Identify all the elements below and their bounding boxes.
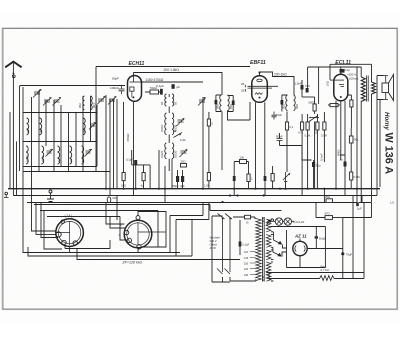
junction dots on buses: [105, 188, 358, 204]
svg-text:25Ω: 25Ω: [325, 195, 330, 199]
wire: rectifier under box: [287, 227, 326, 268]
antenna: [5, 62, 21, 78]
wire: drop verticals to bus: [106, 95, 134, 189]
trimmer capacitor CT9: [97, 96, 106, 105]
wire: tuner verticals: [23, 87, 97, 171]
resistor R15 50k: [349, 128, 359, 172]
wire: speaker return: [379, 100, 381, 188]
coil L1: [26, 118, 30, 135]
output transformer T5 secondary: [372, 64, 376, 202]
svg-text:0550: 0550: [41, 155, 45, 162]
capacitor C19 mains: [239, 220, 250, 255]
svg-text:70µF: 70µF: [346, 253, 353, 257]
IF transformer T3 coils: [215, 95, 233, 111]
svg-text:50k: 50k: [354, 138, 359, 142]
trimmer capacitor CT4: [89, 122, 97, 130]
svg-text:0,1µF: 0,1µF: [156, 84, 164, 88]
svg-text:6,3k: 6,3k: [180, 138, 186, 142]
coil L8: [69, 146, 73, 164]
svg-text:089: 089: [39, 128, 43, 133]
coil L7: [57, 146, 61, 164]
resistor R22: [348, 95, 353, 128]
svg-text:60kΩ: 60kΩ: [336, 150, 340, 156]
IF transformer T4 coils: [281, 95, 299, 111]
wire: can interlinks: [106, 196, 209, 257]
capacitor C5 50uF electrolytic: [173, 170, 180, 189]
svg-text:20pF: 20pF: [276, 113, 283, 117]
wire: can link bottom: [65, 240, 110, 249]
mains switch S1: [217, 214, 232, 275]
wire: ECH11 anode line to IF2: [133, 73, 222, 96]
svg-text:0,3M: 0,3M: [321, 134, 327, 138]
wire: big loop top left: [20, 86, 126, 88]
wire: secondary taps right: [271, 219, 274, 281]
wire: bus B2: [13, 195, 377, 197]
wire: antenna lead down to bus: [12, 78, 14, 196]
wire: IF2 bottom drop: [221, 112, 223, 171]
svg-text:1150·470kΩ: 1150·470kΩ: [146, 78, 164, 82]
wire: EBF anode line to IF3: [260, 72, 295, 95]
IF transformer T1 can: [56, 219, 84, 247]
svg-text:700: 700: [305, 84, 310, 88]
wire: secondary loop vertical: [376, 100, 378, 196]
trimmer capacitor CT5: [177, 118, 185, 126]
svg-text:Gleich: Gleich: [210, 243, 218, 247]
wire: mains entry: [212, 216, 230, 282]
tone switch S3: [309, 116, 319, 189]
wire: big loop left vertical: [19, 87, 21, 171]
label mains ratings: [210, 236, 221, 251]
coil L3: [26, 146, 30, 164]
svg-text:10Ω: 10Ω: [326, 81, 330, 86]
capacitor C20 70uF: [341, 218, 352, 279]
wire: oscillator column links: [168, 94, 170, 171]
svg-text:( 7A ): ( 7A ): [65, 214, 73, 218]
tube V3 ECL11: [330, 73, 348, 101]
wire: bus stubs: [110, 189, 357, 203]
trimmer capacitor CT11: [198, 97, 206, 106]
svg-text:50µF: 50µF: [173, 184, 180, 188]
wire: screen bus drop: [95, 67, 97, 172]
resistor R17 25 ohm heater: [325, 195, 358, 203]
wire: ECL anode top wiring: [322, 67, 361, 74]
capacitor C6 4uF electrolytic: [180, 170, 185, 189]
coil L9: [81, 146, 85, 164]
svg-text:97Ω: 97Ω: [325, 212, 330, 216]
capacitor C23 8.6uF: [315, 236, 327, 248]
svg-text:03: 03: [174, 101, 178, 105]
resistor R6 25 ohm: [181, 160, 187, 168]
wire: nested wrap horizontals: [34, 205, 210, 217]
svg-text:200·1,5kΩ: 200·1,5kΩ: [164, 68, 180, 72]
wire: bottom HT lines: [266, 273, 364, 279]
pilot lamp E2: [284, 218, 291, 225]
resistor R8 1.5k: [204, 173, 211, 189]
tone capacitor C15 5000: [309, 97, 317, 114]
power transformer T7 core: [263, 217, 265, 282]
voltage selector S4 arrows: [273, 232, 287, 257]
svg-text:100pF: 100pF: [110, 86, 119, 90]
capacitor C12: [264, 176, 267, 189]
wire: right verticals to power: [353, 196, 372, 273]
volume potentiometer P1: [283, 172, 290, 189]
svg-text:40 W: 40 W: [210, 246, 217, 250]
tube V2 EBF11: [248, 71, 279, 102]
wire: main bus B1 (dark): [8, 188, 380, 190]
capacitor C10: [281, 95, 288, 112]
wire: rectifier plate leads: [307, 248, 343, 250]
svg-text:Wechsel: Wechsel: [210, 236, 221, 240]
capacitor C4 0.1uF: [126, 158, 137, 189]
wire: left wrap lines: [23, 171, 240, 260]
capacitor C9: [233, 162, 236, 189]
trimmer capacitor CT2: [43, 97, 52, 106]
wire: heater feed right: [361, 196, 363, 203]
svg-text:0,010: 0,010: [160, 124, 164, 132]
svg-text:125: 125: [244, 257, 249, 260]
svg-text:0,1µF: 0,1µF: [243, 243, 250, 247]
resistor R11 4.7k: [298, 114, 304, 189]
svg-text:50µ: 50µ: [316, 164, 321, 168]
resistor R2 1k: [121, 173, 126, 189]
IF transformer T6 can: [119, 216, 167, 249]
resistor R16 0.3M: [350, 172, 361, 189]
svg-text:0,1mF: 0,1mF: [320, 153, 324, 161]
svg-text:004: 004: [92, 103, 96, 108]
transformer taps: [244, 251, 256, 277]
power transformer core hatches: [263, 217, 265, 281]
capacitor C7: [215, 95, 222, 112]
coil L2: [39, 118, 43, 135]
svg-text:220 V: 220 V: [210, 239, 217, 243]
svg-text:002: 002: [78, 103, 82, 108]
wire: ECL screen line: [308, 64, 372, 80]
resistor R19 97 ohm: [316, 203, 343, 220]
svg-text:100: 100: [240, 156, 245, 160]
oscillator coil L10 pair: [160, 94, 178, 106]
svg-text:W 136 A: W 136 A: [383, 133, 395, 175]
capacitor C17 700: [305, 84, 310, 93]
wire: AVC link: [132, 150, 150, 189]
power transformer T7 primary: [256, 219, 261, 281]
wire: speaker leads: [377, 76, 384, 100]
tube V1 ECH11: [128, 73, 142, 102]
wire: bus B3 heater: [27, 202, 326, 204]
resistor R14 0.3M: [321, 112, 327, 162]
capacitor C1 grid caps: [110, 77, 125, 95]
svg-text:5030: 5030: [26, 155, 30, 162]
capacitor C3: [172, 84, 181, 89]
capacitor C16 1.5nF: [295, 82, 304, 90]
trimmer capacitor CT7: [46, 149, 54, 157]
capacitor C13 50pF: [276, 133, 283, 146]
svg-text:150: 150: [244, 263, 249, 266]
resistor R9 0.1M: [285, 112, 293, 173]
wire: mixer vertical x203: [202, 97, 204, 189]
svg-text:0,020: 0,020: [174, 150, 178, 158]
resistor R7 2M: [207, 112, 213, 173]
svg-text:220: 220: [244, 268, 249, 271]
svg-text:470kΩ: 470kΩ: [126, 133, 130, 142]
svg-text:0,1µF: 0,1µF: [126, 158, 133, 162]
wire: lamp circuit: [267, 219, 326, 236]
resistor R23: [328, 104, 340, 107]
ground symbol chassis: [47, 190, 54, 202]
power transformer T7 secondary: [266, 219, 271, 281]
loudspeaker LS1: [382, 75, 394, 101]
capacitor C8: [228, 96, 235, 112]
wire: tuner horizontals: [23, 113, 110, 172]
svg-text:AZ 11: AZ 11: [294, 234, 307, 239]
oscillator coil L11 pair: [160, 113, 178, 135]
coil L4: [41, 146, 45, 164]
wire: ECL pin drops: [336, 67, 357, 189]
resistor R21 100: [234, 156, 248, 164]
wire: power section enclosure top: [210, 205, 282, 211]
svg-text:240: 240: [244, 274, 249, 277]
svg-text:5000: 5000: [309, 101, 315, 105]
svg-text:080: 080: [26, 128, 30, 133]
field coil R18 Regl 0.7k: [320, 265, 334, 281]
fuse F1 Si: [233, 215, 256, 224]
wire: can bottom stubs: [70, 246, 158, 252]
svg-text:0,1µ: 0,1µ: [344, 68, 350, 72]
wire: diode load drop: [264, 102, 266, 176]
svg-text:ZF=128 kHz: ZF=128 kHz: [122, 260, 143, 264]
capacitor C21 50uF cathode: [312, 160, 321, 189]
svg-text:600: 600: [295, 104, 299, 109]
resistor R3: [141, 165, 146, 189]
resistor R12 0.2M: [305, 114, 311, 189]
svg-text:25Ω: 25Ω: [181, 160, 186, 164]
svg-text:0,7 kΩ: 0,7 kΩ: [321, 268, 329, 272]
svg-text:ECL11: ECL11: [335, 60, 351, 66]
svg-text:25: 25: [241, 82, 245, 86]
capacitor C18 1uF: [340, 155, 347, 189]
svg-text:0,025: 0,025: [160, 150, 164, 158]
capacitor C2 0.1uF: [156, 84, 164, 95]
wire: screen bus to EBF11: [96, 66, 250, 68]
output transformer T5 core: [367, 76, 369, 102]
wire: IF2 secondary out: [216, 102, 250, 120]
svg-text:0,1: 0,1: [289, 125, 293, 129]
coil L6: [83, 118, 87, 135]
svg-text:50pF: 50pF: [112, 77, 119, 81]
wire: margin verticals: [10, 112, 17, 196]
trimmer capacitor CT8: [85, 149, 93, 157]
wire: ECH grid line: [140, 81, 203, 83]
resistor R13 50: [315, 114, 320, 189]
svg-text:1µF: 1µF: [357, 207, 362, 211]
label 200V 100mA: [347, 73, 358, 81]
svg-text:1,5nF: 1,5nF: [295, 82, 303, 86]
capacitor C22 1uF right: [343, 203, 372, 218]
wire: AF node wiring: [302, 67, 319, 104]
svg-text:Horny: Horny: [383, 112, 390, 130]
tube V4 AZ11: [293, 239, 307, 256]
switch S2 band contacts: [174, 130, 187, 142]
resistor R10: [271, 166, 274, 189]
svg-text:1,5: 1,5: [390, 201, 394, 205]
fuse F2 M31: [107, 197, 118, 203]
pilot lamp E1: [275, 218, 282, 225]
oscillator coil L12 pair: [160, 143, 178, 159]
svg-text:02: 02: [160, 101, 164, 105]
capacitor C24 25pF grid: [241, 82, 245, 93]
capacitor C14 0.1uF anode: [340, 68, 351, 73]
svg-text:µF: µF: [177, 85, 181, 89]
trimmer capacitor CT1: [33, 89, 42, 98]
resistor R20 1M: [247, 162, 253, 189]
svg-text:0,2+0,2A: 0,2+0,2A: [293, 220, 304, 224]
trimmer capacitor CT3: [53, 97, 62, 106]
resistor R1 70k: [145, 86, 162, 94]
svg-text:EBF11: EBF11: [250, 60, 266, 66]
wire: detector to AF: [280, 146, 312, 161]
trimmer capacitor CT6: [180, 149, 188, 157]
svg-text:200·1kΩ: 200·1kΩ: [274, 72, 287, 76]
svg-text:25: 25: [241, 89, 245, 93]
wire: osc cathode drops: [159, 150, 172, 189]
svg-text:4,7k: 4,7k: [298, 131, 304, 135]
wire: EBF cathode drop: [255, 102, 257, 188]
antenna coil L5 pair: [78, 96, 96, 110]
trimmer capacitor CT10: [108, 96, 117, 105]
svg-text:03: 03: [69, 158, 73, 162]
capacitor C11 20pF: [272, 112, 283, 120]
svg-text:110: 110: [244, 251, 249, 254]
output transformer T5 primary: [361, 67, 365, 203]
ground symbol left margin: [4, 192, 9, 197]
wire: primary bottom: [223, 277, 256, 282]
svg-text:Si: Si: [246, 221, 249, 225]
